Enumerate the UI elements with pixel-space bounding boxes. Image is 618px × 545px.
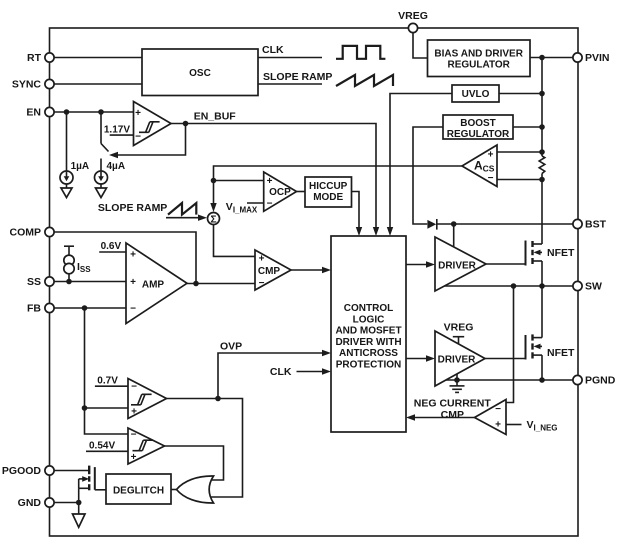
svg-text:SW: SW: [585, 281, 602, 293]
svg-text:−: −: [131, 382, 137, 393]
svg-text:ANTICROSS: ANTICROSS: [339, 348, 398, 359]
svg-text:SS: SS: [27, 276, 41, 288]
svg-text:EN: EN: [26, 107, 41, 119]
svg-text:+: +: [135, 108, 141, 119]
svg-text:AND MOSFET: AND MOSFET: [335, 326, 401, 337]
svg-text:REGULATOR: REGULATOR: [447, 129, 510, 140]
svg-text:+: +: [495, 420, 501, 431]
svg-text:+: +: [130, 250, 136, 261]
svg-text:PGND: PGND: [585, 375, 616, 387]
svg-text:1µA: 1µA: [71, 161, 90, 172]
svg-text:HICCUP: HICCUP: [309, 181, 348, 192]
svg-text:BIAS AND DRIVER: BIAS AND DRIVER: [434, 49, 523, 60]
svg-text:CLK: CLK: [270, 366, 292, 378]
svg-text:VREG: VREG: [444, 322, 474, 334]
svg-text:OVP: OVP: [220, 341, 242, 353]
svg-text:NEG CURRENT: NEG CURRENT: [414, 398, 492, 410]
svg-text:+: +: [131, 452, 137, 463]
svg-text:−: −: [130, 304, 136, 315]
svg-text:−: −: [259, 278, 265, 289]
svg-text:OCP: OCP: [269, 187, 291, 198]
svg-text:AMP: AMP: [142, 279, 165, 290]
svg-text:COMP: COMP: [10, 227, 42, 239]
svg-text:GND: GND: [18, 497, 42, 509]
svg-text:0.54V: 0.54V: [89, 441, 115, 452]
svg-text:CLK: CLK: [262, 44, 284, 56]
svg-text:NFET: NFET: [547, 347, 575, 359]
svg-text:+: +: [131, 406, 137, 417]
svg-text:+: +: [130, 277, 136, 288]
svg-text:Σ: Σ: [210, 215, 216, 226]
svg-text:SLOPE RAMP: SLOPE RAMP: [98, 202, 167, 214]
svg-text:DRIVER WITH: DRIVER WITH: [335, 337, 401, 348]
svg-text:UVLO: UVLO: [462, 89, 490, 100]
svg-text:DEGLITCH: DEGLITCH: [113, 485, 164, 496]
svg-text:PROTECTION: PROTECTION: [336, 360, 402, 371]
svg-text:OSC: OSC: [189, 68, 211, 79]
svg-text:CMP: CMP: [258, 266, 281, 277]
svg-text:PVIN: PVIN: [585, 52, 610, 64]
svg-text:CONTROL: CONTROL: [344, 303, 393, 314]
svg-text:0.6V: 0.6V: [101, 241, 122, 252]
svg-text:CMP: CMP: [441, 409, 464, 421]
svg-text:0.7V: 0.7V: [97, 376, 118, 387]
svg-text:4µA: 4µA: [107, 161, 126, 172]
svg-text:−: −: [135, 132, 141, 143]
svg-text:BST: BST: [585, 219, 607, 231]
svg-text:−: −: [267, 199, 273, 210]
svg-text:NFET: NFET: [547, 247, 575, 259]
svg-text:DRIVER: DRIVER: [438, 260, 477, 271]
svg-text:LOGIC: LOGIC: [353, 314, 385, 325]
svg-text:RT: RT: [27, 52, 42, 64]
svg-text:+: +: [488, 149, 494, 160]
svg-text:+: +: [267, 176, 273, 187]
svg-text:EN_BUF: EN_BUF: [194, 111, 237, 123]
svg-text:REGULATOR: REGULATOR: [447, 60, 510, 71]
svg-text:+: +: [259, 254, 265, 265]
svg-text:MODE: MODE: [313, 192, 343, 203]
svg-text:PGOOD: PGOOD: [2, 465, 42, 477]
svg-text:FB: FB: [27, 303, 41, 315]
svg-text:−: −: [495, 404, 501, 415]
svg-text:VREG: VREG: [398, 10, 428, 22]
svg-text:BOOST: BOOST: [460, 118, 496, 129]
svg-text:DRIVER: DRIVER: [438, 354, 477, 365]
svg-text:−: −: [488, 173, 494, 184]
svg-text:1.17V: 1.17V: [104, 124, 130, 135]
svg-text:−: −: [131, 430, 137, 441]
svg-text:SLOPE RAMP: SLOPE RAMP: [263, 71, 332, 83]
svg-text:SYNC: SYNC: [12, 79, 42, 91]
